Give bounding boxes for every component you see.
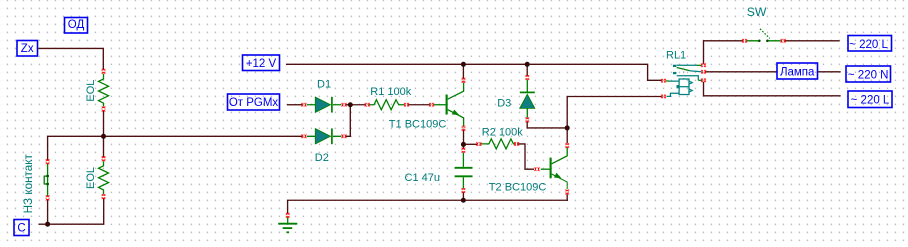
wire bottom return to EOL2	[48, 199, 104, 224]
switch SW	[747, 29, 781, 42]
wire relay blade to lamp	[706, 71, 777, 73]
diode D3	[520, 80, 535, 118]
svg-text:C1 47u: C1 47u	[405, 172, 440, 184]
svg-text:T1 BC109C: T1 BC109C	[389, 118, 447, 130]
wire C box stub	[39, 223, 48, 225]
svg-text:От PGMx: От PGMx	[229, 97, 279, 109]
wire rail to D3 cathode	[526, 64, 528, 75]
svg-text:~ 220 L: ~ 220 L	[849, 39, 888, 51]
svg-text:ОД: ОД	[68, 19, 85, 31]
svg-text:EOL: EOL	[85, 80, 97, 102]
wire D2 cathode up to node A	[346, 104, 350, 136]
pin connection markers (red)	[46, 39, 786, 218]
svg-text:R2 100k: R2 100k	[482, 126, 523, 138]
capacitor C1	[455, 153, 473, 189]
svg-text:D2: D2	[315, 152, 329, 164]
svg-text:R1 100k: R1 100k	[370, 86, 411, 98]
contact terminal 1	[677, 64, 697, 66]
svg-text:T2 BC109C: T2 BC109C	[489, 181, 547, 193]
svg-text:SW: SW	[747, 5, 767, 19]
wire node B to C1	[462, 145, 464, 148]
wire +12V rail to relay coil	[287, 64, 661, 80]
wire node to D2 anode	[104, 135, 302, 137]
ground	[278, 217, 297, 232]
wire C1 bottom to ground rail	[462, 193, 464, 200]
wire D1 cathode to R1	[347, 104, 365, 106]
contact pivot squares	[673, 65, 676, 67]
wire T1 emitter to node B	[463, 130, 465, 144]
transistor T1	[434, 83, 464, 127]
wire R1 to T1 base	[409, 104, 430, 106]
svg-text:EOL: EOL	[85, 167, 97, 189]
svg-text:Zx: Zx	[21, 43, 34, 55]
svg-text:RL1: RL1	[666, 50, 686, 62]
coil leads	[666, 80, 670, 82]
wire relay contact2 to 220L bottom	[704, 82, 841, 95]
svg-text:С: С	[17, 223, 25, 235]
NC contact (НЗ контакт)	[44, 164, 49, 196]
wire node to EOL2 top	[103, 136, 105, 156]
svg-text:~ 220 N: ~ 220 N	[848, 69, 889, 81]
svg-text:D3: D3	[497, 98, 511, 110]
svg-text:НЗ контакт: НЗ контакт	[22, 153, 35, 213]
wire T2 emitter to rail	[566, 195, 568, 200]
svg-text:D1: D1	[317, 79, 331, 91]
wire SW to 220L top	[785, 40, 839, 42]
svg-text:Лампа: Лампа	[780, 67, 815, 79]
diode D1	[307, 97, 342, 113]
relay blade	[677, 68, 690, 71]
wire NC contact bottom	[47, 200, 49, 224]
diode D2	[307, 128, 342, 144]
contact terminal 2	[677, 76, 699, 81]
wire node to NC contact branch	[48, 136, 104, 160]
wire R2 to T2 base	[518, 144, 534, 169]
coil	[679, 79, 689, 95]
resistor R1	[369, 100, 404, 110]
wire ground rail	[288, 200, 568, 213]
wire node B to R2	[464, 143, 477, 145]
relay RL1	[666, 65, 702, 97]
transistor T2	[541, 147, 568, 189]
wire Zx to EOL1	[39, 48, 103, 69]
wire lamp to 220N	[818, 71, 841, 73]
wire PGMx to D1 anode	[288, 104, 302, 106]
svg-text:~ 220 L: ~ 220 L	[851, 95, 890, 107]
wire node C to D3 anode	[527, 123, 567, 128]
resistor EOL2	[99, 161, 109, 194]
wire relay contact1 to SW	[704, 41, 743, 63]
wire rail to T1 collector	[462, 64, 464, 78]
resistor EOL1	[99, 74, 109, 107]
wire EOL1 bottom to node	[103, 112, 105, 137]
wire T2 collector to relay coil bottom	[567, 97, 661, 143]
svg-text:+12 V: +12 V	[246, 58, 277, 70]
resistor R2	[481, 139, 516, 149]
mechanical link	[683, 68, 685, 79]
